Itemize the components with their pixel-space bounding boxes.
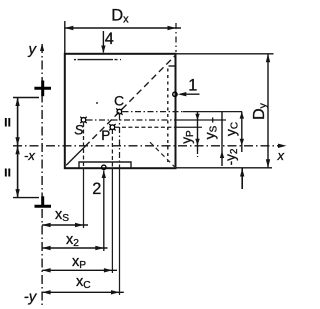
yc dimension line bbox=[241, 112, 243, 152]
Dy dimension line bbox=[267, 54, 269, 168]
inner right wall dashed line bbox=[169, 65, 175, 67]
equality mark upper bbox=[6, 118, 10, 127]
yp dimension line bbox=[197, 112, 199, 151]
xc dimension line bbox=[42, 291, 124, 293]
C vertical extension bbox=[119, 115, 121, 169]
Dy bottom extension line bbox=[176, 167, 272, 169]
Dx dimension line bbox=[65, 27, 181, 29]
svg-text:4: 4 bbox=[105, 30, 114, 48]
node 1 leader line with arrow bbox=[180, 93, 200, 95]
principal axis diagonal (slope +1) through C bbox=[150, 142, 176, 168]
x axis dash-dot line bbox=[13, 145, 283, 147]
left dimension arrows bbox=[15, 98, 19, 107]
S horizontal extension to right bbox=[87, 119, 176, 121]
inner top wall line bbox=[74, 59, 76, 61]
P horizontal extension to right bbox=[115, 126, 175, 128]
point P marker bbox=[109, 124, 115, 130]
left extension line lower bbox=[13, 197, 39, 199]
left extension line upper bbox=[13, 97, 39, 99]
node 4 leader arrow bbox=[102, 31, 104, 53]
svg-text:-y: -y bbox=[24, 288, 38, 305]
ys and -y2 dimension line bbox=[221, 112, 223, 166]
bold cross marker on y axis (top) bbox=[34, 81, 51, 97]
centroid C marker bbox=[116, 108, 122, 114]
Dx left extension line bbox=[64, 21, 66, 53]
C horizontal extension to right bbox=[123, 111, 184, 113]
Dy top extension line bbox=[176, 53, 274, 55]
node 2 marker bbox=[102, 165, 106, 169]
svg-text:C: C bbox=[114, 93, 124, 109]
inner bottom wall step contour bbox=[79, 162, 131, 168]
x2 dimension line bbox=[42, 247, 107, 249]
svg-text:P: P bbox=[101, 128, 110, 143]
left vertical dimension line bbox=[17, 98, 19, 198]
svg-text:1: 1 bbox=[188, 77, 197, 95]
x axis arrowhead bbox=[278, 144, 287, 148]
node 2 vertical extension bbox=[103, 171, 105, 252]
P vertical extension bbox=[111, 130, 113, 168]
square outline of cross-section bbox=[65, 54, 176, 168]
Dx right extension line (dash-dot) bbox=[175, 23, 177, 52]
S vertical extension (dashed in square, solid below) bbox=[83, 123, 85, 168]
svg-text:S: S bbox=[74, 121, 84, 137]
shear center S marker bbox=[80, 117, 86, 123]
y axis dash-dot line bbox=[41, 44, 43, 307]
principal axis diagonal (slope -1) through C bbox=[66, 147, 85, 166]
xp dimension line bbox=[42, 269, 117, 271]
node 1 marker bbox=[173, 92, 177, 96]
svg-text:-x: -x bbox=[24, 148, 35, 163]
svg-text:x: x bbox=[277, 148, 285, 163]
svg-text:2: 2 bbox=[92, 180, 101, 198]
equality mark lower bbox=[6, 169, 10, 177]
bold tee marker on y axis (bottom) bbox=[35, 196, 52, 206]
xs dimension line bbox=[42, 224, 88, 226]
